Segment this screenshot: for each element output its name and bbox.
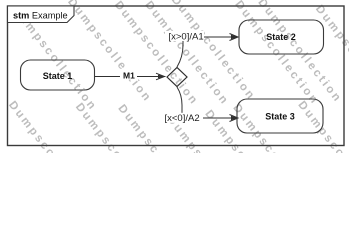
- wire: diamond top to State 2: [177, 37, 236, 67]
- label [x<0]/A2: [164, 113, 204, 123]
- state State 3: [237, 99, 323, 133]
- label [x>0]/A1: [165, 31, 204, 41]
- arrowhead into State 3: [230, 115, 239, 122]
- arrowhead into diamond: [156, 73, 165, 80]
- state State 2: [239, 20, 324, 54]
- state State 1: [21, 60, 95, 90]
- svg-text:State 3: State 3: [265, 111, 295, 121]
- choice diamond: [167, 68, 187, 87]
- wire M1: State 1 to choice diamond: [95, 76, 166, 78]
- label M1: [120, 70, 137, 80]
- svg-text:[x<0]/A2: [x<0]/A2: [165, 113, 200, 124]
- svg-text:[x>0]/A1: [x>0]/A1: [169, 31, 204, 42]
- arrowhead into State 2: [230, 34, 239, 41]
- svg-text:M1: M1: [123, 71, 135, 81]
- svg-text:State 1: State 1: [43, 71, 73, 81]
- frame border: [8, 6, 345, 146]
- svg-text:stm Example: stm Example: [13, 10, 68, 20]
- svg-text:State 2: State 2: [266, 32, 296, 42]
- frame tab (pentagon): [8, 6, 75, 23]
- wire: diamond bottom to State 3: [177, 87, 236, 118]
